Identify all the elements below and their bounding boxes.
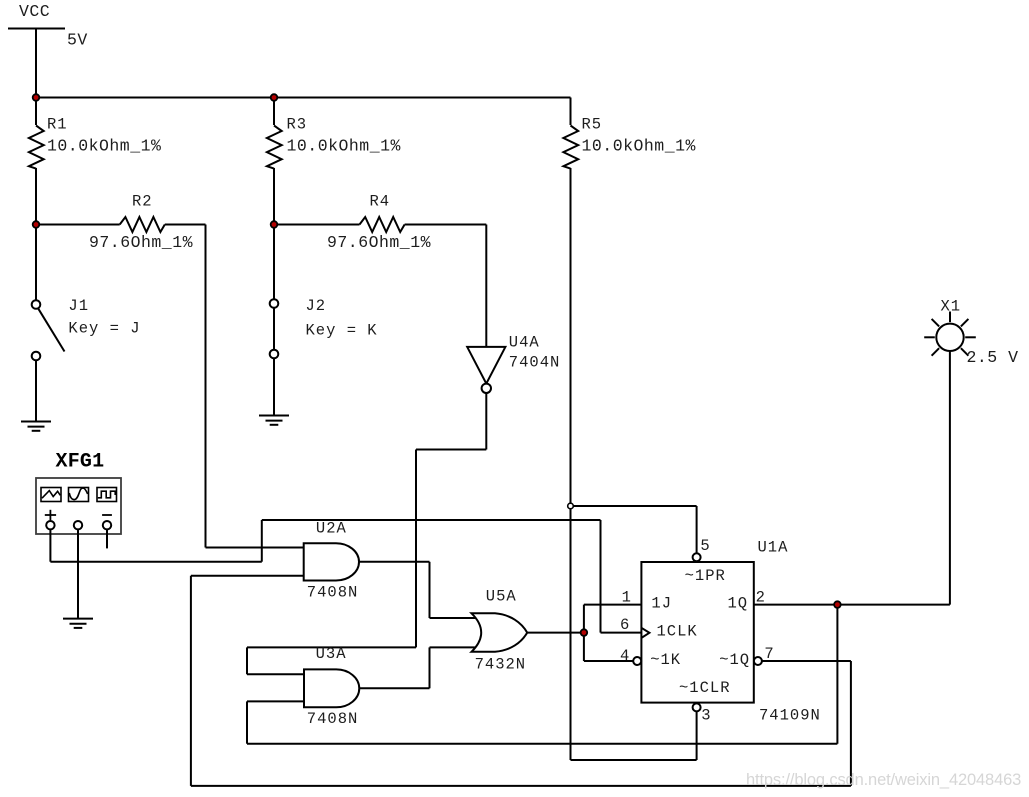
switch J2 (closed) [270,225,279,416]
wire XFG1 + to CLK [50,520,641,633]
wire ~1Q feedback to U2A [191,576,851,786]
svg-text:2: 2 [756,589,766,607]
svg-text:1: 1 [622,589,632,607]
XFG1 minus terminal mark [102,514,112,516]
svg-text:R4: R4 [370,193,391,211]
resistor R4 [360,217,405,232]
svg-text:Key = K: Key = K [306,322,378,340]
lamp X1 [924,312,976,356]
svg-text:X1: X1 [941,298,962,316]
svg-text:7432N: 7432N [475,656,527,674]
svg-text:1CLK: 1CLK [657,622,698,640]
node junction (open) on R5 line [568,503,574,509]
wire R2 right [165,225,304,548]
wire XFG1 common to ground [77,529,79,618]
node R1/R2/J1 [33,221,40,228]
svg-text:VCC: VCC [19,2,50,21]
inverter U4A 7404N [467,347,505,393]
svg-text:U2A: U2A [316,520,347,538]
XFG1 terminals [46,521,111,529]
svg-text:10.0kOhm_1%: 10.0kOhm_1% [287,137,401,156]
pin 4 bubble [633,657,641,665]
svg-text:U5A: U5A [486,587,517,605]
AND gate U3A 7408N [304,669,359,707]
svg-text:U4A: U4A [509,333,540,351]
XFG1 icon triangle wave [41,488,61,502]
wire R5 bottom to pin3 [571,711,697,760]
svg-text:~1Q: ~1Q [719,651,750,669]
wire U4A output to U3A input A [247,393,486,674]
wire top rail VCC net [36,97,571,99]
svg-text:J2: J2 [306,297,327,315]
wire U3A in2 from 1Q net [247,605,837,744]
wire U2A in2 from ~1Q net [191,575,304,577]
ground (J2) [259,416,289,425]
resistor R5 [563,98,578,761]
svg-text:6: 6 [620,616,630,634]
svg-text:4: 4 [620,647,630,665]
wire U2A output to OR in1 [359,562,479,618]
svg-text:~1K: ~1K [650,651,681,669]
wire U5A output to J/K bracket [527,632,584,634]
svg-text:10.0kOhm_1%: 10.0kOhm_1% [582,137,696,156]
function generator XFG1 [36,478,121,534]
resistor R3 [267,98,282,225]
svg-text:~1PR: ~1PR [685,567,726,585]
svg-text:U3A: U3A [316,645,347,663]
svg-text:7: 7 [764,645,774,663]
pin 3 bubble [693,703,701,711]
pin 7 bubble [754,657,762,665]
wire 1Q to lamp [754,351,950,605]
XFG1 icon square wave [97,488,117,502]
svg-text:R5: R5 [582,116,603,134]
svg-text:R1: R1 [47,116,68,134]
svg-text:XFG1: XFG1 [56,451,105,474]
svg-text:2.5 V: 2.5 V [967,348,1019,367]
XFG1 icon sine wave [69,488,89,502]
wire U3A output to OR in2 [359,647,479,688]
svg-text:R3: R3 [287,116,308,134]
node OR out/J/K [581,629,588,636]
svg-text:~1CLR: ~1CLR [679,679,731,697]
pin 5 bubble [693,553,701,561]
svg-text:7408N: 7408N [307,583,359,601]
svg-text:J1: J1 [68,297,89,315]
svg-text:R2: R2 [132,193,153,211]
node 1Q branch [834,601,841,608]
clock wedge pin 6 [641,628,649,638]
XFG1 plus terminal mark [45,510,56,520]
svg-text:1Q: 1Q [728,594,749,612]
wire node PR: R5 to pin5 [571,506,697,553]
svg-text:5V: 5V [67,31,88,50]
resistor R1 [29,98,44,225]
node VCC/R3 [271,94,278,101]
switch J1 [32,225,65,422]
wire J/K bracket [584,605,642,661]
svg-text:7408N: 7408N [307,710,359,728]
ground (J1) [21,422,51,431]
svg-text:1J: 1J [651,594,672,612]
ground (XFG1) [63,619,93,628]
OR gate U5A 7432N [472,613,528,652]
AND gate U2A 7408N [304,543,359,580]
svg-text:74109N: 74109N [759,706,821,724]
svg-text:https://blog.csdn.net/weixin_4: https://blog.csdn.net/weixin_42048463 [746,771,1021,789]
svg-text:7404N: 7404N [509,354,561,372]
wire R4 left [274,224,360,226]
wire R4 right to U4A [405,225,487,347]
flip-flop U1A 74109N box [641,562,753,703]
node R3/R4/J2 [271,221,278,228]
svg-text:97.6Ohm_1%: 97.6Ohm_1% [89,233,193,252]
svg-text:3: 3 [701,706,711,724]
svg-text:5: 5 [700,537,710,555]
svg-text:Key = J: Key = J [68,319,140,337]
svg-text:10.0kOhm_1%: 10.0kOhm_1% [47,137,161,156]
svg-text:97.6Ohm_1%: 97.6Ohm_1% [327,233,431,252]
node VCC/R1 [33,94,40,101]
svg-text:U1A: U1A [758,539,789,557]
wire XFG1 - stub [106,529,108,548]
resistor R2 [120,217,165,232]
wire R2 left [36,224,120,226]
VCC power symbol [8,29,65,98]
